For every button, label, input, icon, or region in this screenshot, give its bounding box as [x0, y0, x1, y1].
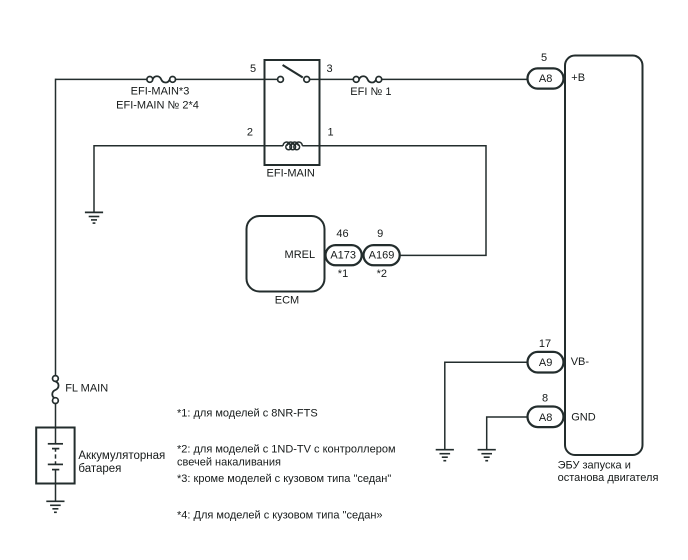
wire relay pin2 to ground	[94, 146, 265, 213]
svg-text:EFI № 1: EFI № 1	[350, 86, 391, 98]
wire relay coil row right to corner	[302, 146, 486, 256]
wire top horizontal left segment	[56, 78, 148, 80]
relay coil	[283, 142, 302, 150]
label MREL	[285, 249, 316, 261]
wire fuse to battery	[55, 404, 57, 444]
label VB-	[571, 356, 590, 368]
svg-text:+B: +B	[571, 72, 585, 84]
label +B	[571, 72, 585, 84]
ECU caption	[558, 460, 659, 485]
svg-text:FL MAIN: FL MAIN	[65, 382, 108, 394]
wire left vertical	[55, 79, 57, 376]
pin 5 label (A8)	[541, 52, 547, 64]
label EFI No 1	[350, 86, 391, 98]
connector A169	[364, 245, 400, 265]
svg-text:ECM: ECM	[275, 295, 299, 307]
svg-text:A173: A173	[330, 250, 356, 262]
svg-text:останова двигателя: останова двигателя	[558, 472, 659, 484]
note *1 text	[177, 408, 318, 420]
connector A8 (+B)	[528, 68, 564, 88]
label battery	[78, 450, 165, 475]
svg-text:5: 5	[541, 52, 547, 64]
ground (battery)	[46, 501, 64, 512]
label GND	[571, 412, 596, 424]
ground (relay pin2)	[85, 212, 103, 223]
svg-text:9: 9	[377, 228, 383, 240]
svg-text:A169: A169	[369, 250, 395, 262]
svg-text:GND: GND	[571, 412, 596, 424]
pin 46 label	[336, 228, 348, 240]
svg-text:*1: для моделей с 8NR-FTS: *1: для моделей с 8NR-FTS	[177, 408, 318, 420]
svg-text:EFI-MAIN: EFI-MAIN	[267, 168, 315, 180]
svg-text:ЭБУ запуска и: ЭБУ запуска и	[558, 460, 631, 472]
svg-text:EFI-MAIN № 2*4: EFI-MAIN № 2*4	[116, 99, 199, 111]
svg-text:2: 2	[247, 126, 253, 138]
relay EFI-MAIN box	[265, 60, 320, 165]
svg-text:A8: A8	[539, 412, 552, 424]
wire A9 to ground	[445, 362, 528, 449]
battery box	[36, 428, 74, 484]
svg-text:46: 46	[336, 228, 348, 240]
svg-text:батарея: батарея	[78, 463, 121, 475]
connector A9 (VB-)	[528, 352, 564, 373]
pin 2 label	[247, 126, 253, 138]
wire A8 to ground	[487, 417, 528, 450]
label EFI-MAIN*3 / EFI-MAIN № 2*4	[116, 86, 199, 112]
svg-text:*1: *1	[338, 268, 348, 280]
svg-text:EFI-MAIN*3: EFI-MAIN*3	[131, 86, 190, 98]
svg-text:*2: *2	[377, 268, 387, 280]
wire relay coil row left	[265, 145, 284, 147]
battery cells	[48, 444, 63, 470]
svg-text:MREL: MREL	[285, 249, 316, 261]
svg-text:A8: A8	[539, 73, 552, 85]
svg-text:5: 5	[250, 63, 256, 75]
pin 1 label	[328, 126, 334, 138]
wire battery to ground	[55, 470, 57, 502]
svg-text:8: 8	[542, 393, 548, 405]
ECM box	[247, 216, 325, 292]
svg-text:VB-: VB-	[571, 356, 590, 368]
relay label EFI-MAIN	[267, 168, 315, 180]
ground (GND)	[478, 450, 496, 461]
wire fuse to connector A8	[381, 78, 527, 80]
note *1	[338, 268, 348, 280]
svg-text:*4: Для моделей с кузовом типа: *4: Для моделей с кузовом типа "седан»	[177, 509, 383, 521]
relay switch contacts	[278, 77, 310, 83]
svg-text:*3: кроме моделей с кузовом ти: *3: кроме моделей с кузовом типа "седан"	[177, 473, 391, 485]
pin 8 label	[542, 393, 548, 405]
note *2 text	[177, 443, 396, 468]
relay switch blade	[283, 65, 303, 78]
ECM caption	[275, 295, 299, 307]
pin 17 label	[539, 338, 551, 350]
note *3 text	[177, 473, 391, 485]
svg-text:*2: для моделей с 1ND-TV с кон: *2: для моделей с 1ND-TV с контроллером	[177, 443, 396, 455]
pin 5 label	[250, 63, 256, 75]
svg-text:1: 1	[328, 126, 334, 138]
note *2	[377, 268, 387, 280]
svg-text:Аккумуляторная: Аккумуляторная	[78, 450, 165, 462]
wire switch right to fuse EFI No1	[309, 78, 353, 80]
ground (VB-)	[436, 450, 454, 461]
connector A173	[326, 245, 362, 265]
svg-text:3: 3	[327, 63, 333, 75]
note *4 text	[177, 509, 383, 521]
pin 3 label	[327, 63, 333, 75]
wire top horizontal to relay	[175, 78, 277, 80]
fuse FL MAIN	[52, 376, 58, 404]
fuse EFI-MAIN	[147, 76, 176, 82]
svg-text:свечей накаливания: свечей накаливания	[177, 456, 281, 468]
svg-text:17: 17	[539, 338, 551, 350]
ECU box	[565, 56, 643, 456]
connector A8 (GND)	[528, 407, 564, 428]
fuse EFI No 1	[353, 76, 381, 82]
label FL MAIN	[65, 382, 108, 394]
pin 9 label	[377, 228, 383, 240]
svg-text:A9: A9	[539, 357, 552, 369]
